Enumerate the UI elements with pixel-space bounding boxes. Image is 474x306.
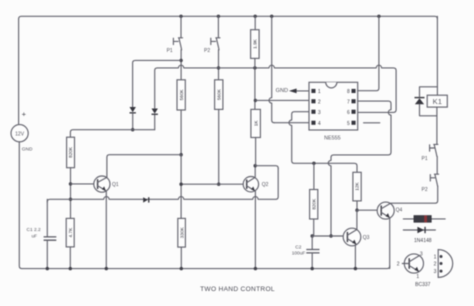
- wire Q1 collector lead: [107, 155, 181, 178]
- svg-text:2: 2: [397, 262, 400, 268]
- svg-text:4.7K: 4.7K: [68, 227, 73, 238]
- wire P1 node to D1: [133, 60, 182, 107]
- svg-text:1N4148: 1N4148: [414, 238, 432, 244]
- junction 330K ground: [180, 267, 183, 270]
- resistor 1.9K: [251, 30, 260, 59]
- svg-text:3: 3: [420, 251, 423, 257]
- svg-text:12K: 12K: [355, 182, 360, 191]
- wire Q1 base network to Q2 collector loop: [47, 168, 278, 202]
- wire Q1 emitter lead: [105, 191, 107, 269]
- svg-text:K1: K1: [433, 97, 442, 106]
- transistor Q1: [94, 176, 110, 192]
- transistor Q2: [243, 177, 258, 192]
- transistor BC337 pinout symbol: [402, 254, 423, 273]
- pin 5 square: [352, 121, 356, 125]
- svg-text:TWO HAND CONTROL: TWO HAND CONTROL: [200, 286, 275, 293]
- wire left supply branch to 12V source: [18, 19, 20, 125]
- junction Q2 emitter ground: [254, 267, 257, 270]
- svg-text:BC337: BC337: [415, 282, 431, 288]
- svg-text:GND: GND: [276, 88, 288, 94]
- svg-text:C2: C2: [295, 244, 301, 250]
- transistor Q3: [343, 228, 361, 246]
- junction 560K1 node vertical: [180, 155, 182, 200]
- svg-text:1K: 1K: [253, 120, 258, 127]
- svg-text:P2: P2: [204, 48, 210, 54]
- diode D2: [152, 109, 158, 115]
- resistor 560K first: [177, 80, 185, 110]
- wire pin7 stub: [328, 101, 391, 236]
- resistor 1K: [251, 109, 261, 137]
- resistor 4.7K: [66, 218, 74, 247]
- battery 12V source: [11, 125, 28, 142]
- junction Q2 base node: [179, 183, 182, 186]
- diode D1: [130, 107, 136, 114]
- svg-text:8: 8: [347, 89, 350, 95]
- junction Q3 emitter ground: [354, 267, 357, 270]
- svg-text:1: 1: [318, 89, 321, 95]
- pushbutton P1: [173, 38, 182, 50]
- wire +12V top rail: [19, 16, 438, 19]
- capacitor C2: [306, 236, 319, 269]
- pin 1 square: [311, 89, 315, 93]
- wire diode bottoms to 820K: [70, 130, 154, 138]
- wire P1 to P2 link: [436, 156, 438, 174]
- wire 12V negative to ground rail: [19, 142, 22, 269]
- junction D1 bottom: [131, 128, 134, 131]
- wire D1 cathode lead: [132, 114, 134, 130]
- wire pin2 line: [255, 99, 309, 101]
- svg-text:4: 4: [318, 121, 321, 127]
- svg-text:2: 2: [434, 262, 437, 268]
- wire Q2 collector lead: [254, 166, 256, 178]
- diode 1N4148 symbol: [403, 227, 435, 233]
- junction 4.7K ground: [69, 267, 72, 270]
- junction 12K Q4 base: [355, 209, 358, 212]
- junction Q1 emitter ground: [105, 267, 108, 270]
- svg-text:+: +: [22, 109, 27, 118]
- svg-text:560K: 560K: [216, 88, 221, 100]
- wire pin5 stub: [364, 122, 380, 124]
- wire D2 anode lead to trigger line: [155, 68, 158, 109]
- diode flyback across K1: [415, 97, 425, 104]
- node GND arrow: [289, 89, 297, 94]
- wire Q3 base line: [312, 235, 343, 237]
- pin 8 square: [352, 89, 356, 93]
- junction Q1 base tee: [69, 182, 72, 185]
- svg-text:NE555: NE555: [324, 135, 340, 141]
- svg-text:C1 2.2: C1 2.2: [27, 227, 41, 233]
- pushbutton P1 right: [430, 144, 438, 156]
- svg-text:6: 6: [347, 110, 350, 116]
- pin 2 square: [311, 99, 315, 103]
- svg-text:Q3: Q3: [363, 235, 370, 241]
- junction C1 ground: [46, 267, 49, 270]
- svg-text:P2: P2: [422, 187, 428, 193]
- wire trigger line D2 to right: [157, 65, 396, 112]
- diode D3: [143, 197, 149, 202]
- diode 1N4148 package drawing: [403, 216, 445, 223]
- junction P1 node: [179, 59, 182, 62]
- junction 820K left / C1 wire: [69, 198, 72, 201]
- wire 820K right lower lead: [313, 219, 315, 236]
- pin 4 square: [311, 121, 315, 125]
- svg-text:2: 2: [318, 99, 321, 105]
- pin 3 square: [311, 110, 315, 114]
- wire 1.9K upper lead: [254, 16, 256, 29]
- wire 560K1 lower lead: [180, 110, 182, 155]
- wire K1 bottom lead: [436, 107, 438, 144]
- resistor 12K: [353, 172, 361, 201]
- svg-text:1: 1: [416, 274, 419, 280]
- wire Q2 base line: [181, 183, 243, 185]
- svg-text:Q2: Q2: [262, 182, 269, 188]
- junction 820K C2 Q3 base: [311, 234, 314, 237]
- capacitor C1: [44, 199, 57, 268]
- junction rail pin2 branch: [270, 15, 273, 18]
- junction P2 node: [217, 66, 220, 69]
- svg-text:560K: 560K: [179, 89, 184, 101]
- wire 1.9K to 1K: [254, 58, 256, 109]
- wire 12K lower lead: [356, 201, 358, 210]
- junction C2 ground: [311, 267, 314, 270]
- svg-text:330K: 330K: [179, 226, 184, 238]
- IC U1 NE555 body: [309, 82, 358, 130]
- wire Q1 base: [71, 183, 95, 185]
- pin 7 square: [352, 99, 356, 103]
- wire 820K lower lead to Q1 base: [70, 168, 72, 219]
- wire P1 lower lead: [180, 50, 182, 80]
- wire 1K lower lead: [255, 138, 257, 166]
- pushbutton P2: [211, 38, 220, 50]
- wire flyback diode top link: [420, 87, 438, 97]
- wire Q4 emitter lead: [389, 218, 391, 269]
- wire 560K2 lower lead: [218, 109, 220, 184]
- svg-text:100uF: 100uF: [292, 250, 306, 256]
- wire 4.7K lower lead: [69, 247, 71, 269]
- svg-text:3: 3: [318, 110, 321, 116]
- svg-text:P1: P1: [167, 48, 173, 54]
- wire pin1 GND stub: [296, 90, 309, 92]
- wire Q3 emitter lead: [354, 245, 356, 269]
- wire pin4 stub: [274, 122, 309, 124]
- wire pin2 branch from rail: [269, 16, 274, 122]
- wire P2 upper lead: [217, 16, 219, 37]
- junction trigger 1.9K: [253, 66, 256, 69]
- resistor 560K second: [215, 80, 223, 110]
- relay K1: [427, 95, 447, 107]
- transistor Q4: [377, 202, 394, 219]
- resistor 820K left: [67, 137, 75, 168]
- pin 6 square: [352, 110, 356, 114]
- junction Q2 collector: [254, 164, 257, 167]
- junction 560K2 Q2 base: [217, 183, 220, 186]
- svg-text:1: 1: [434, 254, 437, 260]
- junction pin2 line: [254, 99, 257, 102]
- wire ground bottom rail: [22, 266, 390, 269]
- wire D2 cathode lead: [154, 115, 156, 130]
- svg-text:Q1: Q1: [112, 182, 119, 188]
- svg-text:12V: 12V: [15, 131, 25, 137]
- wire P2 lower lead: [218, 50, 220, 80]
- svg-text:3: 3: [434, 269, 437, 275]
- resistor 820K right: [310, 190, 318, 220]
- svg-text:5: 5: [347, 121, 350, 127]
- wire flyback diode bottom link: [420, 104, 437, 116]
- svg-text:1.9K: 1.9K: [253, 38, 258, 49]
- svg-text:820K: 820K: [68, 146, 73, 158]
- wire 330K leads: [180, 199, 182, 268]
- wire pin8 to rail: [358, 16, 379, 90]
- svg-text:Q4: Q4: [396, 207, 403, 213]
- svg-text:P1: P1: [422, 156, 428, 162]
- wire K1 top lead from rail: [436, 16, 438, 95]
- pushbutton P2 right: [430, 174, 438, 186]
- wire 820K right upper lead: [313, 163, 315, 189]
- svg-text:7: 7: [347, 99, 350, 105]
- wire Q2 collector loop: [255, 166, 278, 169]
- resistor 330K: [178, 218, 186, 247]
- svg-text:uF: uF: [32, 233, 38, 239]
- svg-text:GND: GND: [22, 147, 33, 153]
- junction output line 820K: [312, 162, 315, 165]
- wire Q3 collector lead: [356, 210, 358, 229]
- wire P1 upper lead: [180, 16, 182, 37]
- wire pin3 to pin4 link: [289, 112, 357, 173]
- junction rail P1: [179, 15, 182, 18]
- TO-92 package outline: [438, 250, 453, 278]
- junction rail 1.9K: [254, 15, 257, 18]
- svg-text:820K: 820K: [311, 198, 316, 210]
- wire Q2 emitter lead: [254, 191, 256, 269]
- wire Q4 base line: [357, 209, 377, 211]
- junction rail pin8 branch: [377, 15, 380, 18]
- junction Q3 base branch: [329, 234, 332, 237]
- junction rail P2: [217, 15, 220, 18]
- wire Q4 collector to P2 chain: [391, 186, 438, 203]
- junction 560K1 Q1 collector: [179, 153, 182, 156]
